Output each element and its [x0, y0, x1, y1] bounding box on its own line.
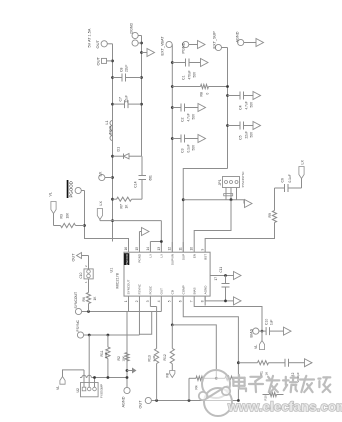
svg-text:FOSC: FOSC	[149, 285, 153, 294]
jumper shunt bar	[224, 194, 233, 196]
wire AGND line	[126, 312, 128, 378]
wire LX pins tie	[149, 241, 151, 244]
connector OUT (circle)	[101, 41, 107, 47]
svg-text:15: 15	[135, 247, 139, 251]
capacitor C7	[113, 103, 125, 105]
resistor R13	[155, 349, 159, 364]
svg-text:LX: LX	[98, 171, 103, 176]
ground C5	[253, 122, 261, 130]
jumper J1 box	[84, 269, 93, 279]
resistor R4 chain	[189, 377, 196, 379]
connector BIAS (circle)	[253, 328, 259, 334]
svg-text:14: 14	[146, 247, 150, 251]
net tag FB	[170, 371, 175, 378]
node bus ground junction	[140, 51, 143, 54]
svg-text:C2: C2	[181, 117, 185, 121]
node R8 junction	[171, 85, 174, 88]
svg-text:4.7uF: 4.7uF	[187, 113, 191, 121]
svg-text:FSYNC: FSYNC	[138, 283, 142, 294]
svg-text:SYNCOUT: SYNCOUT	[74, 292, 78, 309]
svg-text:C11: C11	[219, 267, 223, 273]
svg-text:AGND: AGND	[122, 396, 126, 407]
svg-text:470uF: 470uF	[188, 70, 192, 79]
svg-text:BIAS: BIAS	[192, 287, 196, 294]
ground JP1	[245, 200, 253, 208]
wire BIAS net	[194, 306, 262, 332]
svg-text:22uF: 22uF	[245, 131, 249, 138]
connector AGND (circle)	[238, 39, 244, 45]
resistor R10 fragment	[263, 394, 270, 396]
node chain mid junction	[215, 377, 218, 380]
svg-text:OUT: OUT	[160, 288, 164, 295]
node C3 junction	[171, 137, 174, 140]
wire pin5 down	[172, 325, 216, 378]
svg-text:0: 0	[206, 93, 210, 95]
node C5 junction	[226, 124, 229, 127]
svg-text:C6: C6	[281, 178, 285, 182]
svg-text:13: 13	[157, 247, 161, 251]
pin J1-2	[87, 270, 91, 274]
resistor R6	[88, 304, 90, 312]
node OUT square connector junction	[111, 60, 114, 63]
pin 9 BST	[204, 242, 206, 252]
svg-text:5: 5	[168, 300, 172, 302]
svg-text:PGND: PGND	[138, 253, 142, 263]
node R7 junction on PH line	[111, 198, 114, 201]
ground C3	[198, 135, 206, 143]
wire JP1 drop	[183, 199, 244, 201]
inductor L1	[112, 140, 114, 141]
wire snubber horizontal	[141, 180, 143, 200]
ground signal bottom	[127, 370, 132, 372]
svg-text:R1: R1	[260, 371, 264, 375]
node PGOOD junction	[83, 224, 86, 227]
svg-text:50V: 50V	[250, 101, 254, 108]
net port OUT arrow	[77, 253, 82, 259]
wire pin5 net	[171, 306, 173, 325]
svg-text:100K: 100K	[104, 351, 108, 358]
svg-text:SYNCOUT: SYNCOUT	[127, 279, 131, 294]
capacitor C4	[228, 95, 241, 97]
wire JP1 ground	[243, 200, 245, 204]
connector SYNCOUT (circle)	[75, 308, 81, 314]
ground C4	[253, 92, 261, 100]
svg-text:SUPVIN: SUPVIN	[171, 254, 175, 265]
resistor R1 comp	[238, 362, 257, 364]
pin 4 OUT	[160, 296, 162, 305]
svg-text:C10: C10	[265, 319, 269, 325]
node C4 junction	[226, 94, 229, 97]
node C7 bus junction	[140, 103, 143, 106]
resistor R3 pull-up	[76, 225, 85, 227]
connector OUT (square)	[102, 58, 107, 63]
pin U2-2	[87, 387, 91, 391]
svg-text:VL: VL	[49, 192, 53, 196]
pin J1-1	[87, 274, 91, 278]
svg-text:1K: 1K	[265, 372, 269, 376]
svg-text:LX: LX	[99, 201, 103, 206]
net tag VL (pgood)	[51, 202, 56, 214]
svg-text:50V: 50V	[192, 144, 196, 151]
pin 15 PGND	[138, 242, 140, 252]
wire EXT_VBAT rail	[171, 45, 173, 253]
wire chain top	[188, 378, 190, 400]
ground C10	[284, 327, 292, 335]
node C2 junction	[171, 106, 174, 109]
svg-text:12: 12	[168, 247, 172, 251]
capacitor C11	[225, 276, 227, 284]
svg-text:U2: U2	[76, 388, 80, 392]
svg-text:2: 2	[135, 300, 139, 302]
svg-text:AGND: AGND	[236, 31, 240, 42]
svg-text:PGOOD: PGOOD	[68, 181, 73, 197]
ground C1	[201, 59, 209, 67]
pin 16 PGOOD	[128, 242, 130, 252]
wire J1 to OUT arrow	[88, 256, 90, 269]
pin 7 BIAS	[193, 296, 195, 305]
svg-text:SYNCFSYNC: SYNCFSYNC	[241, 171, 245, 187]
svg-text:R8: R8	[200, 92, 204, 96]
watermark logo circle 1	[202, 370, 230, 398]
node BIAS junction	[261, 330, 264, 333]
svg-text:PGND: PGND	[182, 42, 186, 53]
node D1 junction on PH line	[111, 155, 114, 158]
svg-text:C10: C10	[79, 272, 83, 278]
connector LX (circle)	[99, 174, 105, 180]
svg-text:EXT_VBAT: EXT_VBAT	[161, 36, 165, 56]
svg-text:11: 11	[179, 247, 183, 251]
resistor R7	[113, 198, 117, 200]
pin 1 SYNCOUT	[128, 296, 130, 305]
capacitor C12	[284, 359, 286, 367]
watermark glyph fa	[267, 376, 280, 392]
svg-text:OUT: OUT	[95, 40, 100, 49]
pin U2-1 square	[82, 387, 86, 391]
wire EXT_SUP to pin11	[183, 169, 227, 253]
svg-text:C4: C4	[239, 105, 243, 109]
connector DGND (circle 2)	[132, 32, 138, 38]
ground bus	[142, 52, 148, 54]
svg-text:PGOOD: PGOOD	[125, 253, 129, 265]
wire VL to U2 pin1	[63, 370, 85, 377]
svg-text:BIAS: BIAS	[250, 328, 254, 337]
svg-text:C8: C8	[120, 68, 124, 72]
node chain junction	[188, 399, 191, 402]
svg-text:2.2uH: 2.2uH	[109, 125, 113, 134]
svg-text:SUP: SUP	[181, 254, 185, 260]
svg-text:FSYNC: FSYNC	[76, 319, 80, 331]
pin 3 FOSC	[149, 296, 151, 305]
node pin11/JP1 junction	[182, 198, 185, 201]
node pin6/out junction	[237, 399, 240, 402]
svg-text:R4: R4	[195, 385, 199, 389]
svg-text:16: 16	[124, 247, 128, 251]
svg-text:MIC2178: MIC2178	[116, 273, 120, 288]
wire R13 line	[156, 364, 158, 401]
pin 17 exposed pad	[210, 275, 217, 277]
net tag VL (U2)	[60, 377, 65, 385]
svg-text:OUT: OUT	[139, 400, 143, 409]
svg-text:1uF: 1uF	[270, 319, 274, 325]
svg-text:LX: LX	[149, 254, 153, 258]
resistor R11	[107, 335, 109, 347]
wire pin6 net	[183, 306, 238, 401]
svg-text:D1: D1	[117, 147, 121, 152]
svg-text:R13: R13	[148, 355, 152, 361]
svg-text:17: 17	[214, 277, 218, 281]
connector PGND (circle)	[183, 41, 189, 47]
svg-text:AGND: AGND	[203, 285, 207, 295]
pin 10 EN	[193, 242, 195, 252]
node pin5 junction	[171, 324, 174, 327]
node C1 junction	[171, 61, 174, 64]
ground pin15 PGND	[138, 232, 140, 243]
wire BST boot	[205, 223, 274, 243]
svg-text:R12: R12	[163, 354, 167, 360]
ground PGND	[198, 41, 206, 49]
svg-text:6: 6	[179, 300, 183, 302]
node C7 junction on OUT line	[111, 103, 114, 106]
connector EXT_VBAT (circle)	[166, 41, 172, 47]
svg-text:1: 1	[124, 300, 128, 302]
ground AGND right	[256, 39, 264, 47]
ground C2	[198, 104, 206, 112]
node R6 junction	[87, 310, 90, 313]
svg-text:EN: EN	[192, 254, 196, 258]
capacitor C3	[172, 138, 181, 140]
svg-text:10K: 10K	[122, 356, 126, 361]
svg-text:FXO53MP: FXO53MP	[100, 384, 104, 398]
node comp tap junction	[237, 361, 240, 364]
capacitor C14	[139, 179, 147, 181]
connector PGOOD (circle)	[75, 187, 81, 193]
svg-text:10K: 10K	[66, 212, 70, 219]
svg-text:U1: U1	[110, 268, 114, 273]
wire net45 vertical	[80, 377, 82, 379]
svg-text:L1: L1	[105, 121, 109, 125]
svg-text:3.3K: 3.3K	[152, 355, 156, 361]
svg-text:681: 681	[149, 175, 153, 181]
svg-text:C1: C1	[182, 75, 186, 79]
op-amp U1 MIC2178 body	[124, 252, 210, 296]
capacitor C10	[262, 330, 266, 332]
wire jog to bus	[139, 312, 151, 335]
wire FSYNC to pin2	[138, 306, 140, 336]
capacitor C2	[172, 107, 181, 109]
svg-text:22uF: 22uF	[125, 95, 129, 102]
net tag LX (boot)	[299, 167, 304, 179]
connector DGND (circle 1)	[132, 40, 138, 46]
net tag VL (bias)	[261, 331, 263, 340]
ground pad	[234, 272, 242, 280]
pin JP1-1	[225, 181, 228, 184]
node net45 bottom junction	[126, 376, 129, 379]
resistor R12	[171, 325, 173, 349]
resistor R5 chain	[216, 377, 225, 379]
svg-text:22uF: 22uF	[125, 65, 129, 72]
svg-text:COMP: COMP	[181, 285, 185, 294]
svg-text:R9: R9	[268, 213, 272, 217]
wire PGOOD net	[85, 191, 129, 253]
svg-text:EXT_SUP: EXT_SUP	[213, 31, 217, 49]
wire pin4 stub link	[160, 306, 162, 312]
svg-text:JP1: JP1	[218, 179, 222, 185]
node C8 bus junction	[140, 76, 143, 79]
capacitor C1	[172, 62, 185, 64]
pin 14 LX	[149, 242, 151, 252]
svg-text:VL: VL	[254, 345, 258, 349]
pin JP1-3	[235, 181, 238, 184]
pin JP1-2	[230, 181, 233, 184]
capacitor C6	[284, 184, 286, 192]
svg-text:C5: C5	[239, 135, 243, 139]
svg-text:OUT: OUT	[72, 253, 76, 262]
wire EXT_SUP rail	[227, 48, 229, 169]
svg-text:0.1uF: 0.1uF	[187, 144, 191, 152]
pin 13 LX	[160, 242, 162, 252]
jumper JP1 box	[223, 177, 240, 188]
watermark glyph you	[300, 376, 314, 392]
resistor R8	[172, 86, 200, 88]
pin 8 AGND	[204, 296, 206, 305]
svg-text:OUT: OUT	[96, 57, 101, 66]
capacitor C8	[113, 77, 123, 79]
svg-text:C7: C7	[119, 97, 123, 101]
net tag LX (PH)	[97, 209, 102, 220]
connector EXT_SUP (circle)	[215, 44, 221, 50]
svg-text:BST: BST	[203, 254, 207, 260]
pin 2 FSYNC	[138, 296, 140, 305]
node JP1-2 junction	[230, 198, 233, 201]
watermark logo circle 2	[204, 388, 232, 416]
watermark logo small circle 1	[199, 392, 207, 400]
svg-text:10: 10	[190, 247, 194, 251]
svg-text:0.1uF: 0.1uF	[288, 174, 292, 182]
svg-text:8: 8	[201, 300, 205, 302]
svg-text:FB: FB	[166, 372, 170, 377]
pin 11 SUP	[182, 242, 184, 252]
node U2 junction	[88, 334, 91, 337]
wire pin1 link	[128, 306, 130, 312]
ground comp	[305, 359, 313, 367]
wire pin8 AGND drop	[205, 296, 233, 301]
connector OUT bottom (circle)	[145, 397, 151, 403]
diode D1	[113, 155, 124, 157]
connector AGND bottom (circle)	[124, 387, 130, 393]
oscillator U2 box	[81, 383, 99, 397]
watermark glyph shao	[283, 376, 297, 392]
svg-text:LX: LX	[301, 160, 305, 165]
node DGND circles junction	[140, 42, 143, 45]
watermark logo diagonal	[207, 389, 223, 399]
node LX connector junction	[111, 176, 114, 179]
svg-text:4: 4	[157, 300, 161, 302]
wire boot to C6	[275, 187, 285, 189]
svg-text:9: 9	[201, 249, 205, 251]
pin 5 CB	[171, 296, 173, 305]
svg-text:VL: VL	[56, 386, 60, 390]
node pad/C11 junction	[224, 274, 227, 277]
node R13 junction	[155, 399, 158, 402]
svg-text:R2: R2	[117, 356, 121, 360]
connector FSYNC (circle)	[77, 332, 83, 338]
node LX tie junction	[160, 240, 163, 243]
wire DGND bus	[141, 36, 143, 157]
resistor R9 boot	[272, 211, 276, 223]
svg-text:R7: R7	[120, 204, 124, 208]
pin 12 SUPVIN	[171, 242, 173, 252]
svg-text:7: 7	[190, 300, 194, 302]
svg-text:CB: CB	[171, 290, 175, 294]
svg-text:50V: 50V	[250, 131, 254, 138]
svg-text:3: 3	[146, 300, 150, 302]
svg-text:50V: 50V	[193, 71, 197, 78]
node R11 junction	[107, 334, 110, 337]
watermark glyph extra	[318, 377, 330, 392]
watermark glyph zi	[249, 377, 263, 392]
svg-text:DGND: DGND	[130, 23, 134, 34]
node ground branch junction	[126, 369, 129, 372]
svg-text:4.7uF: 4.7uF	[245, 101, 249, 109]
node net45 pin3 junction	[93, 376, 96, 379]
node net45 R11 junction	[107, 376, 110, 379]
svg-text:C3: C3	[181, 148, 185, 152]
node pin8/C11 junction	[224, 300, 227, 303]
wire EN pin10 to JP1	[194, 200, 231, 242]
watermark logo small circle 2	[222, 387, 230, 395]
wire PH vertical to LX pins	[100, 220, 161, 222]
pin 6 COMP	[182, 296, 184, 305]
svg-text:C14: C14	[134, 181, 138, 187]
svg-text:www.elecfans.com: www.elecfans.com	[227, 399, 342, 414]
watermark glyph dian	[233, 375, 246, 391]
capacitor C5	[228, 125, 241, 127]
wire pad ground	[218, 275, 234, 277]
node PH corner junction	[111, 219, 114, 222]
pin U2-3	[93, 387, 97, 391]
svg-text:R3: R3	[60, 214, 64, 218]
svg-text:5V AT 1.5A: 5V AT 1.5A	[88, 28, 92, 47]
resistor R2	[125, 353, 129, 362]
ground pin8	[234, 297, 242, 305]
svg-text:50V: 50V	[192, 113, 196, 120]
node R8 bottom junction	[226, 85, 229, 88]
node C8 junction on OUT line	[111, 76, 114, 79]
wire OUT/PH net horizontal	[112, 44, 114, 242]
svg-text:R6: R6	[82, 297, 86, 301]
svg-text:LX: LX	[160, 254, 164, 258]
